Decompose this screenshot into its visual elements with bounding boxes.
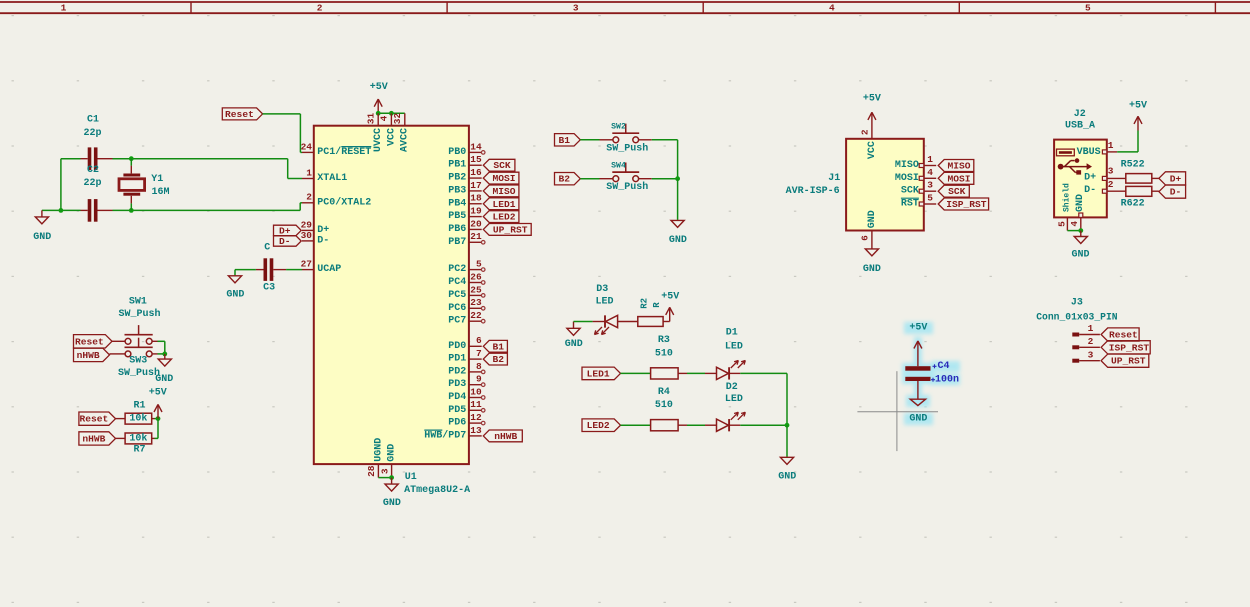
global label MOSI (J1) (938, 172, 974, 184)
pin 29 (left) (302, 229, 314, 231)
svg-text:3: 3 (1108, 166, 1114, 177)
svg-text:1: 1 (61, 3, 67, 14)
svg-text:ATmega8U2-A: ATmega8U2-A (404, 485, 470, 496)
svg-text:100n: 100n (935, 374, 959, 385)
wire Y1 bottom stub (130, 203, 132, 210)
wire nHWB to R7 (116, 437, 126, 439)
LED D3 (593, 321, 605, 323)
resistor R1 (125, 413, 152, 424)
global label B1 (U1) (483, 340, 507, 352)
USB receptacle icon (1057, 149, 1075, 156)
svg-text:Y1: Y1 (151, 174, 163, 185)
svg-text:31: 31 (366, 113, 377, 125)
wire C2 to PC0/XTAL2 (97, 209, 112, 211)
svg-text:22p: 22p (83, 178, 101, 189)
svg-text:20: 20 (470, 218, 482, 229)
global label ISP_RST (J3) (1101, 341, 1150, 354)
pin 28 UGND (bottom) (377, 464, 379, 478)
svg-text:nHWB: nHWB (82, 433, 105, 444)
svg-text:5: 5 (1085, 3, 1091, 14)
wire Reset to R1 (116, 418, 126, 420)
power +5V (J1) (871, 112, 873, 126)
wire C1 left to GND rail (81, 158, 88, 160)
svg-text:GND: GND (387, 444, 398, 462)
svg-text:2: 2 (306, 192, 312, 203)
svg-text:ISP_RST: ISP_RST (1109, 342, 1150, 353)
power +5V (J2) (1137, 116, 1139, 130)
svg-text:PB2: PB2 (448, 173, 466, 184)
svg-text:B2: B2 (493, 354, 505, 365)
pin 30 (left) (302, 240, 314, 242)
svg-text:22p: 22p (83, 128, 101, 139)
capacitor C4 (905, 366, 930, 371)
global label nHWB (R7) (79, 432, 116, 445)
svg-text:PC7: PC7 (448, 316, 466, 327)
svg-text:GND: GND (669, 235, 687, 246)
svg-text:D+: D+ (1170, 173, 1182, 184)
svg-text:2: 2 (1108, 179, 1114, 190)
global label LED1 (U1) (483, 198, 519, 210)
pin 31 UVCC (top) (377, 113, 379, 125)
svg-text:29: 29 (301, 219, 313, 230)
junction J2 GND (1078, 228, 1083, 233)
svg-text:PD1: PD1 (448, 354, 466, 365)
svg-text:LED2: LED2 (587, 420, 610, 431)
pin 23 PC6 (right) (469, 307, 482, 309)
svg-text:PD0: PD0 (448, 341, 466, 352)
svg-text:GND: GND (383, 498, 401, 509)
svg-text:C3: C3 (263, 283, 275, 294)
global label B1 (555, 134, 581, 146)
svg-text:+5V: +5V (370, 82, 388, 93)
pin 24 (left) (302, 151, 314, 153)
pin 4 GND (J2 bottom) (1079, 213, 1083, 217)
svg-text:2: 2 (1088, 336, 1094, 347)
svg-text:MISO: MISO (895, 160, 919, 171)
svg-text:11: 11 (470, 399, 482, 410)
svg-text:PB1: PB1 (448, 160, 466, 171)
svg-text:PB6: PB6 (448, 224, 466, 235)
svg-text:GND: GND (565, 339, 583, 350)
svg-text:PB7: PB7 (448, 237, 466, 248)
pin 17 PB3 (right) (469, 190, 482, 192)
pin 1 VBUS (J2) (1102, 150, 1106, 154)
pin 3 SCK (J1 right) (924, 190, 936, 192)
connector J2 USB_A body (1054, 140, 1107, 218)
svg-text:USB_A: USB_A (1065, 120, 1095, 131)
wire R3 to D1 (678, 372, 687, 374)
ground GND (J1) (871, 247, 873, 249)
wire Y1 top stub (130, 159, 132, 166)
svg-text:GND: GND (909, 413, 927, 424)
svg-text:17: 17 (470, 180, 482, 191)
svg-text:10k: 10k (129, 413, 147, 425)
resistor R6 22 (1126, 186, 1152, 196)
svg-text:13: 13 (470, 425, 482, 436)
svg-text:SCK: SCK (493, 160, 511, 171)
global label SCK (U1) (483, 159, 515, 171)
svg-text:510: 510 (655, 348, 673, 359)
global label nHWB (SW3) (74, 348, 110, 361)
pin 16 PB2 (right) (469, 177, 482, 179)
global label ISP_RST (J1) (938, 198, 988, 210)
svg-text:15: 15 (470, 154, 482, 165)
wire Shield to GND (1067, 230, 1080, 232)
svg-text:SW_Push: SW_Push (118, 367, 160, 379)
ground GND (LEDs) (786, 456, 788, 459)
pin 12 PD6 (right) (469, 422, 482, 424)
global label LED2 (582, 419, 621, 432)
pin 26 PC4 (right) (469, 282, 482, 284)
junction Y1 top (129, 156, 134, 161)
global label Reset (J3) (1101, 328, 1139, 341)
svg-text:SW_Push: SW_Push (606, 181, 648, 193)
pin 4 VCC (top) (390, 113, 392, 125)
switch SW1 SW_Push (125, 338, 131, 344)
svg-text:C: C (264, 243, 270, 254)
svg-text:R522: R522 (1121, 160, 1145, 171)
svg-text:5: 5 (476, 259, 482, 270)
wire C3 to UCAP pin 27 (273, 269, 286, 271)
svg-text:16M: 16M (151, 187, 169, 198)
wire VBUS to +5V (1117, 151, 1138, 153)
svg-text:PB5: PB5 (448, 211, 466, 222)
svg-text:LED2: LED2 (493, 212, 516, 223)
power +5V (R2) (669, 307, 671, 321)
global label MISO (J1) (938, 160, 974, 172)
global label LED1 (582, 367, 621, 380)
wire R1 to +5V (152, 418, 155, 420)
capacitor C3 (264, 258, 268, 281)
pin 8 PD2 (right) (469, 371, 482, 373)
power +5V (C4) (917, 341, 919, 366)
pin 10 PD4 (right) (469, 397, 482, 399)
ground GND (C4) (910, 399, 925, 405)
wire D2 to junction (730, 424, 741, 426)
svg-text:D1: D1 (726, 328, 738, 339)
svg-text:6: 6 (476, 335, 482, 346)
svg-text:3: 3 (379, 468, 390, 474)
svg-text:+5V: +5V (1129, 100, 1147, 111)
svg-text:VBUS: VBUS (1077, 147, 1101, 158)
pin 25 PC5 (right) (469, 294, 482, 296)
wire R4 to D2 (678, 424, 687, 426)
USB trident icon (1060, 166, 1087, 168)
junction pin31 (376, 111, 381, 116)
pin 14 PB0 (right) (469, 151, 482, 153)
svg-text:D+: D+ (1084, 172, 1096, 183)
svg-text:18: 18 (470, 193, 482, 204)
svg-text:4: 4 (927, 167, 933, 178)
svg-text:GND: GND (33, 232, 51, 243)
svg-text:8: 8 (476, 361, 482, 372)
wire Reset to pin 24 (263, 113, 301, 115)
wire +5V rail (top) (378, 112, 405, 114)
svg-text:6: 6 (859, 235, 870, 241)
svg-text:AVR-ISP-6: AVR-ISP-6 (786, 186, 840, 197)
svg-text:PC0/XTAL2: PC0/XTAL2 (317, 196, 371, 208)
svg-text:D2: D2 (726, 382, 738, 393)
ground GND (C3) (234, 274, 236, 277)
pin 1 (left) (302, 178, 314, 180)
pin 2 (J3) (1072, 345, 1079, 349)
svg-text:B2: B2 (559, 174, 571, 185)
svg-text:28: 28 (366, 465, 377, 477)
wire SW3 to junction (152, 353, 157, 355)
global label SCK (J1) (938, 185, 969, 197)
pin 6 GND (J1 bottom) (871, 231, 873, 247)
ground GND (J2) (1080, 231, 1082, 237)
svg-text:PC5: PC5 (448, 290, 466, 301)
svg-text:32: 32 (392, 113, 403, 125)
junction R1/+5V (156, 416, 161, 421)
junction SW GND (162, 352, 167, 357)
wire R2 to +5V (663, 321, 670, 323)
svg-text:3: 3 (927, 180, 933, 191)
connector J1 AVR-ISP-6 body (846, 139, 924, 231)
svg-text:510: 510 (655, 400, 673, 411)
global label Reset (R1) (79, 412, 116, 425)
svg-text:PD6: PD6 (448, 418, 466, 429)
wire C4 to GND symbol (917, 381, 919, 399)
wire SW1 to GND rail (152, 340, 157, 342)
svg-text:25: 25 (470, 284, 482, 295)
global label nHWB (U1) (483, 430, 522, 442)
svg-text:5: 5 (927, 193, 933, 204)
svg-text:19: 19 (470, 206, 482, 217)
resistor R2 (638, 317, 663, 327)
pin 5 Shield (J2 bottom) (1066, 217, 1068, 230)
svg-text:Reset: Reset (75, 336, 104, 347)
svg-text:J1: J1 (828, 173, 840, 184)
resistor R4 (651, 420, 679, 431)
wire D3 to R2 (618, 321, 638, 323)
pin 20 PB6 (right) (469, 228, 482, 230)
junction LED GND (785, 423, 790, 428)
svg-text:26: 26 (470, 271, 482, 282)
pin 4 MOSI (J1 right) (924, 177, 936, 179)
svg-text:10: 10 (470, 386, 482, 397)
svg-text:3: 3 (1088, 349, 1094, 360)
svg-text:nHWB: nHWB (77, 350, 100, 361)
svg-text:J2: J2 (1074, 109, 1086, 120)
svg-text:12: 12 (470, 412, 482, 423)
svg-text:10k: 10k (129, 432, 147, 444)
svg-text:SW2: SW2 (611, 123, 626, 132)
junction SW4 GND (675, 176, 680, 181)
crystal Y1 (130, 166, 132, 174)
svg-text:AVCC: AVCC (400, 128, 411, 152)
resistor R7 (125, 433, 152, 444)
svg-text:PC2: PC2 (448, 264, 466, 275)
pin 9 PD3 (right) (469, 384, 482, 386)
pin 1 (J3) (1072, 333, 1079, 337)
ground GND (SW) (164, 354, 166, 359)
svg-text:UCAP: UCAP (317, 264, 341, 275)
svg-text:D-: D- (1170, 187, 1182, 198)
LED D1 (717, 367, 729, 379)
switch SW2 SW_Push (613, 137, 619, 143)
resistor R3 (651, 368, 679, 379)
svg-text:SW1: SW1 (129, 297, 147, 308)
svg-text:UVCC: UVCC (373, 128, 384, 152)
wire R7 to +5V rail (152, 437, 155, 439)
cursor crosshair (896, 371, 898, 451)
pin 11 PD5 (right) (469, 409, 482, 411)
ground GND (U1) (391, 478, 393, 485)
global label D- (U1) (274, 236, 302, 246)
svg-text:D+: D+ (279, 225, 291, 236)
svg-text:24: 24 (301, 141, 313, 152)
svg-text:D-: D- (279, 236, 291, 247)
svg-text:PC1/RESET: PC1/RESET (317, 146, 371, 158)
capacitor C2 (88, 199, 92, 222)
svg-text:Reset: Reset (225, 109, 254, 120)
svg-text:+5V: +5V (661, 292, 679, 303)
svg-text:UGND: UGND (373, 438, 384, 462)
wire nHWB to SW3 (110, 353, 126, 355)
svg-text:PD4: PD4 (448, 392, 466, 403)
global label MISO (U1) (483, 185, 519, 197)
svg-text:MOSI: MOSI (493, 173, 516, 184)
svg-text:4: 4 (1069, 221, 1080, 227)
pin 5 PC2 (right) (469, 269, 482, 271)
global label Reset (SW1) (74, 335, 113, 348)
svg-text:1: 1 (306, 167, 312, 178)
wire C3 to GND (256, 269, 264, 271)
svg-text:+5V: +5V (863, 94, 881, 105)
pin 3 (J3) (1072, 359, 1079, 363)
svg-text:UP_RST: UP_RST (493, 224, 528, 235)
svg-text:1: 1 (1088, 323, 1094, 334)
wire SW4 to junction (639, 178, 652, 180)
pin 19 PB5 (right) (469, 216, 482, 218)
svg-text:4: 4 (379, 115, 390, 121)
junction GND pins (389, 475, 394, 480)
switch SW4 SW_Push (613, 176, 619, 182)
ground GND (D3) (573, 322, 575, 329)
wire C1 to XTAL1 (97, 158, 112, 160)
pin 7 PD1 (right) (469, 358, 482, 360)
svg-text:ISP_RST: ISP_RST (946, 199, 987, 210)
svg-text:J3: J3 (1071, 298, 1083, 309)
junction bottom-left (59, 208, 64, 213)
svg-text:B1: B1 (493, 341, 505, 352)
svg-text:R7: R7 (133, 444, 145, 455)
svg-text:MISO: MISO (947, 161, 970, 172)
pin 13 HWB/PD7 (right) (469, 435, 482, 437)
ground GND (SW2/SW4) (677, 219, 679, 222)
svg-text:U1: U1 (405, 472, 417, 483)
global label Reset (to PC1/RESET) (222, 108, 262, 120)
svg-text:D-: D- (317, 235, 329, 246)
svg-text:R4: R4 (658, 387, 670, 398)
svg-text:GND: GND (1071, 250, 1089, 261)
pin 18 PB4 (right) (469, 203, 482, 205)
svg-text:LED1: LED1 (493, 199, 516, 210)
wire SW2 to GND rail (639, 139, 652, 141)
svg-text:PB4: PB4 (448, 198, 466, 209)
pin 2 D- (J2) (1102, 189, 1106, 193)
resistor R5 22 (1126, 174, 1152, 184)
svg-text:14: 14 (470, 141, 482, 152)
wire to pin XTAL1 (287, 159, 289, 179)
svg-text:4: 4 (829, 3, 835, 14)
svg-text:UP_RST: UP_RST (1111, 356, 1146, 367)
svg-text:VCC: VCC (386, 128, 397, 146)
pin 2 (left) (302, 202, 314, 204)
wire LED2 to R4 (621, 424, 651, 426)
svg-text:SW_Push: SW_Push (118, 308, 160, 320)
svg-text:21: 21 (470, 231, 482, 242)
wire R6 to D- label (1152, 190, 1159, 192)
pin 6 PD0 (right) (469, 345, 482, 347)
pin 5 RST (J1 right) (924, 203, 936, 205)
wire R5 to D+ label (1152, 177, 1159, 179)
svg-text:SW3: SW3 (129, 355, 147, 366)
wire to GND (SW2/SW4) (677, 179, 679, 220)
svg-text:SCK: SCK (901, 186, 919, 197)
svg-text:C2: C2 (87, 165, 99, 176)
pin 21 PB7 (right) (469, 241, 482, 243)
svg-text:RST: RST (901, 199, 919, 210)
svg-text:GND: GND (867, 210, 878, 228)
pin 3 GND (bottom) (391, 464, 393, 478)
global label D+ (J2) (1159, 172, 1186, 185)
svg-text:27: 27 (301, 259, 313, 270)
svg-text:Shield: Shield (1062, 183, 1071, 212)
wire GND to D3 (574, 321, 593, 323)
wire bottom GND rail (378, 477, 391, 479)
svg-text:22: 22 (470, 310, 482, 321)
wire to pin PC0/XTAL2 (299, 203, 301, 211)
junction Y1 bottom (129, 208, 134, 213)
svg-text:9: 9 (476, 374, 482, 385)
wire LED1 to R3 (621, 372, 651, 374)
power +5V (R1) (157, 404, 159, 418)
wire bottom rail (42, 209, 81, 211)
capacitor C4 selection halo (902, 322, 960, 425)
wire B1 to SW2 (580, 139, 599, 141)
svg-text:MISO: MISO (493, 186, 516, 197)
svg-text:Conn_01x03_PIN: Conn_01x03_PIN (1036, 311, 1118, 322)
pin 2 VCC (J1 top) (871, 127, 873, 139)
capacitor C1 (88, 147, 92, 170)
svg-text:Reset: Reset (79, 414, 108, 425)
svg-text:5: 5 (1056, 221, 1067, 227)
svg-text:1: 1 (927, 154, 933, 165)
svg-text:PB3: PB3 (448, 185, 466, 196)
svg-text:C4: C4 (937, 361, 949, 372)
global label UP_RST (U1) (483, 224, 531, 236)
svg-text:D+: D+ (317, 225, 329, 236)
junction pin4 (389, 111, 394, 116)
svg-text:2: 2 (317, 3, 323, 14)
switch SW3 SW_Push (125, 351, 131, 357)
pin 3 D+ (J2) (1102, 176, 1106, 180)
svg-text:D3: D3 (596, 284, 608, 295)
op-amp U1 ATmega8U2-A body (314, 126, 469, 464)
global label UP_RST (J3) (1101, 354, 1149, 367)
svg-text:GND: GND (1075, 194, 1086, 212)
svg-text:SW_Push: SW_Push (606, 142, 648, 154)
svg-text:16: 16 (470, 167, 482, 178)
wire to GND (LEDs) (786, 425, 788, 457)
svg-text:30: 30 (301, 230, 313, 241)
svg-text:PB0: PB0 (448, 147, 466, 158)
svg-text:GND: GND (226, 289, 244, 300)
svg-text:PD3: PD3 (448, 379, 466, 390)
